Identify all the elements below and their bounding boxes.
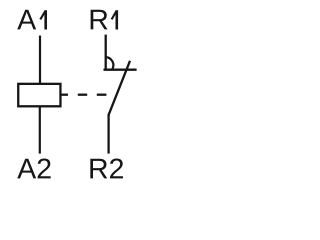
contact fixed bar [104, 68, 137, 70]
wire R1 lead [105, 35, 107, 71]
contact latch arc [106, 57, 114, 69]
wire A2 lead [39, 106, 41, 154]
terminal label R2 [90, 159, 123, 179]
coil K1 [18, 84, 60, 106]
wire A1 lead [39, 36, 41, 84]
terminal label A2 [17, 159, 50, 179]
terminal label R1 [91, 10, 118, 30]
wire R2 lead [107, 114, 109, 154]
mechanical link dashed wire [62, 94, 107, 96]
contact blade [109, 61, 131, 115]
terminal label A1 [17, 10, 47, 30]
